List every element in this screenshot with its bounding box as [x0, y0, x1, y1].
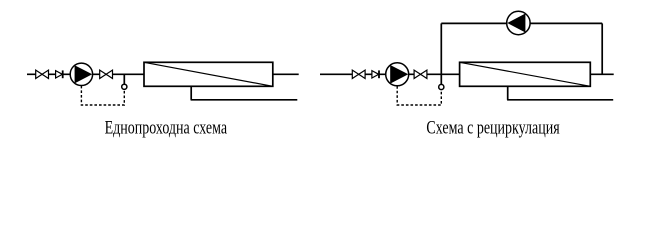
heat exchanger HX1: [144, 62, 273, 86]
wire: recirculation right riser: [601, 23, 603, 74]
wire: recirculation top line: [441, 22, 602, 24]
wire: inlet pipe (left scheme): [27, 73, 144, 75]
wire: HX1 return drop: [190, 86, 192, 100]
temperature sensor T1: [122, 84, 127, 89]
pump P1: [70, 63, 92, 85]
temperature sensor T2: [439, 84, 444, 89]
heat exchanger HX2: [460, 62, 591, 86]
valve V4 (shut-off, bowtie): [414, 70, 427, 78]
wire: HX2 return line: [507, 99, 613, 101]
pump P1 impeller: [75, 65, 93, 83]
control line (dashed) pump P1 to sensor T1: [81, 86, 124, 105]
node: sensor tap stub: [123, 74, 125, 84]
pump P2: [386, 63, 409, 86]
valve V1 (shut-off, bowtie): [36, 70, 49, 78]
wire: recirculation left riser: [440, 23, 442, 74]
check valve NV2: [372, 71, 379, 78]
svg-text:Еднопроходна схема: Еднопроходна схема: [105, 119, 228, 139]
HX2 diagonal: [460, 62, 591, 86]
wire: inlet pipe (right scheme): [320, 73, 460, 75]
wire: HX1 outlet: [273, 73, 299, 75]
wire: HX1 return line: [191, 99, 298, 101]
wire: HX2 return drop: [507, 86, 509, 100]
wire: HX2 outlet: [590, 73, 613, 75]
pump P2 impeller: [390, 65, 408, 84]
svg-text:Схема с рециркулация: Схема с рециркулация: [426, 119, 560, 139]
valve V3 (shut-off, bowtie): [352, 70, 365, 78]
recirculation pump P3: [507, 11, 530, 34]
valve V2 (shut-off, bowtie): [100, 70, 113, 78]
control line (dashed) pump P2 to sensor T2: [397, 86, 441, 105]
check valve NV1: [56, 71, 63, 78]
HX1 diagonal: [144, 62, 273, 86]
node: sensor tap stub (right): [440, 74, 442, 84]
pump P3 impeller (points left): [507, 14, 525, 33]
